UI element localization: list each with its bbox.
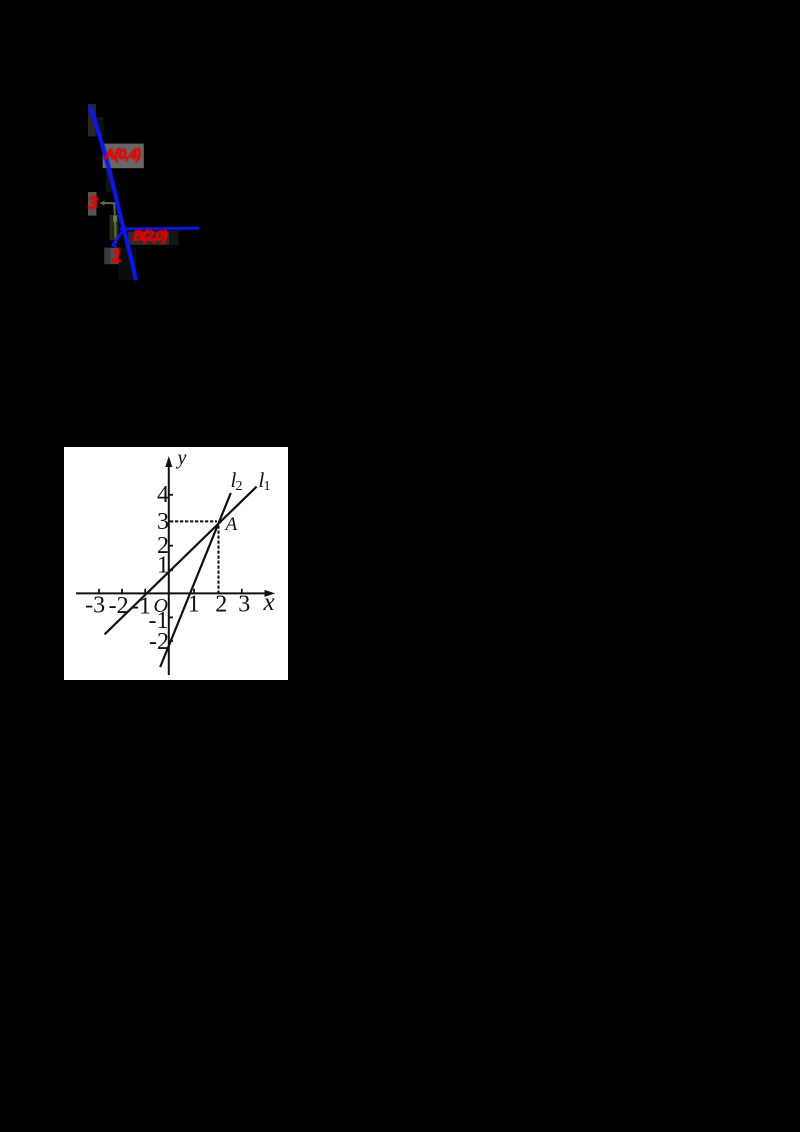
svg-text:B(2,0): B(2,0) bbox=[133, 227, 168, 244]
svg-text:1: 1 bbox=[188, 592, 200, 618]
svg-text:-1: -1 bbox=[131, 594, 151, 620]
svg-text:3: 3 bbox=[157, 509, 169, 535]
svg-text:-2: -2 bbox=[149, 629, 169, 655]
svg-text:A(0,4): A(0,4) bbox=[104, 147, 142, 163]
svg-text:2: 2 bbox=[215, 592, 227, 618]
svg-text:-3: -3 bbox=[85, 592, 105, 618]
svg-text:3: 3 bbox=[238, 592, 250, 618]
svg-text:A: A bbox=[224, 514, 238, 535]
svg-text:1: 1 bbox=[112, 246, 122, 266]
svg-text:1: 1 bbox=[157, 553, 169, 579]
svg-text:x: x bbox=[262, 589, 274, 616]
svg-text:y: y bbox=[176, 447, 187, 469]
svg-text:4: 4 bbox=[157, 482, 169, 508]
svg-text:2: 2 bbox=[236, 479, 243, 494]
svg-text:1: 1 bbox=[264, 479, 271, 494]
svg-text:O: O bbox=[154, 595, 168, 617]
svg-text:-2: -2 bbox=[109, 593, 129, 619]
svg-text:3: 3 bbox=[88, 193, 98, 213]
